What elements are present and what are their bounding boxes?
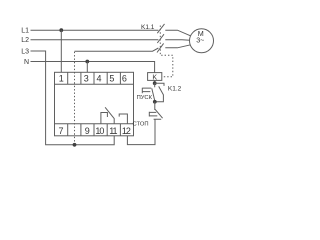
svg-text:ПУСК: ПУСК: [137, 95, 153, 101]
contactor K1.1 pole 3 blade: [157, 43, 164, 52]
svg-text:12: 12: [122, 126, 131, 136]
relay device outline: [55, 72, 134, 136]
wire phase tap to contactor pole 3: [75, 48, 159, 51]
svg-text:L2: L2: [21, 37, 29, 44]
wire STOP to terminal 12: [127, 119, 155, 144]
wire N to terminal 3: [86, 62, 88, 73]
svg-text:1: 1: [59, 74, 64, 84]
svg-text:L3: L3: [21, 48, 29, 55]
junction on L1 rail: [59, 28, 63, 32]
wire coil K to node A: [154, 80, 156, 83]
bottom terminal strip line: [55, 123, 134, 125]
pushbutton PUSK blade: [152, 88, 155, 102]
svg-text:K1.1: K1.1: [141, 24, 155, 31]
svg-text:6: 6: [122, 74, 127, 84]
bottom terminal dividers: [68, 124, 121, 136]
svg-text:9: 9: [85, 126, 90, 136]
svg-text:СТОП: СТОП: [133, 121, 149, 127]
junction node B: [153, 100, 157, 104]
junction on N rail: [85, 60, 89, 64]
dashed mechanical link K1.1: [160, 26, 173, 77]
motor M 3~: [190, 29, 214, 53]
top terminal strip line: [55, 83, 134, 85]
dashed link through terminals 2 and 8: [74, 52, 76, 145]
svg-text:11: 11: [109, 126, 117, 136]
relay contact fixed 12: [119, 114, 127, 124]
wire L1 to terminal 1: [60, 30, 62, 72]
svg-text:5: 5: [109, 74, 114, 84]
contactor K1.1 pole 2 blade: [157, 34, 164, 43]
wire pole 3 to motor: [165, 45, 190, 48]
junction dashed link with bottom route: [73, 143, 77, 147]
wire pole 1 to motor: [165, 30, 190, 36]
relay contact common 11 blade: [105, 107, 114, 124]
wire pole 2 to motor: [165, 39, 190, 42]
top terminal dividers: [68, 72, 121, 84]
pushbutton PUSK wire top: [154, 83, 156, 87]
svg-text:L1: L1: [21, 28, 29, 35]
contact K1.2: [155, 83, 164, 102]
coil K1: [148, 73, 162, 81]
svg-text:K1.2: K1.2: [168, 86, 182, 93]
svg-text:10: 10: [95, 126, 104, 136]
svg-text:7: 7: [58, 126, 63, 136]
svg-text:4: 4: [96, 74, 101, 84]
wire N rail to coil K: [31, 62, 155, 73]
svg-text:3~: 3~: [196, 36, 204, 45]
pushbutton STOP blade: [154, 109, 163, 119]
wire L3 down left side and under box to terminal 11: [31, 51, 115, 145]
svg-text:N: N: [24, 59, 29, 66]
svg-text:3: 3: [84, 74, 89, 84]
pushbutton STOP wire top: [154, 102, 156, 110]
svg-text:K: K: [152, 74, 157, 81]
relay contact fixed 10: [101, 113, 108, 124]
pushbutton PUSK cap: [142, 88, 151, 94]
junction node A: [153, 81, 157, 85]
wire L2 rail: [31, 39, 159, 41]
wire L1 rail: [31, 29, 159, 31]
contactor K1.1 pole 1 blade: [157, 24, 164, 33]
pushbutton STOP cap: [149, 112, 157, 117]
